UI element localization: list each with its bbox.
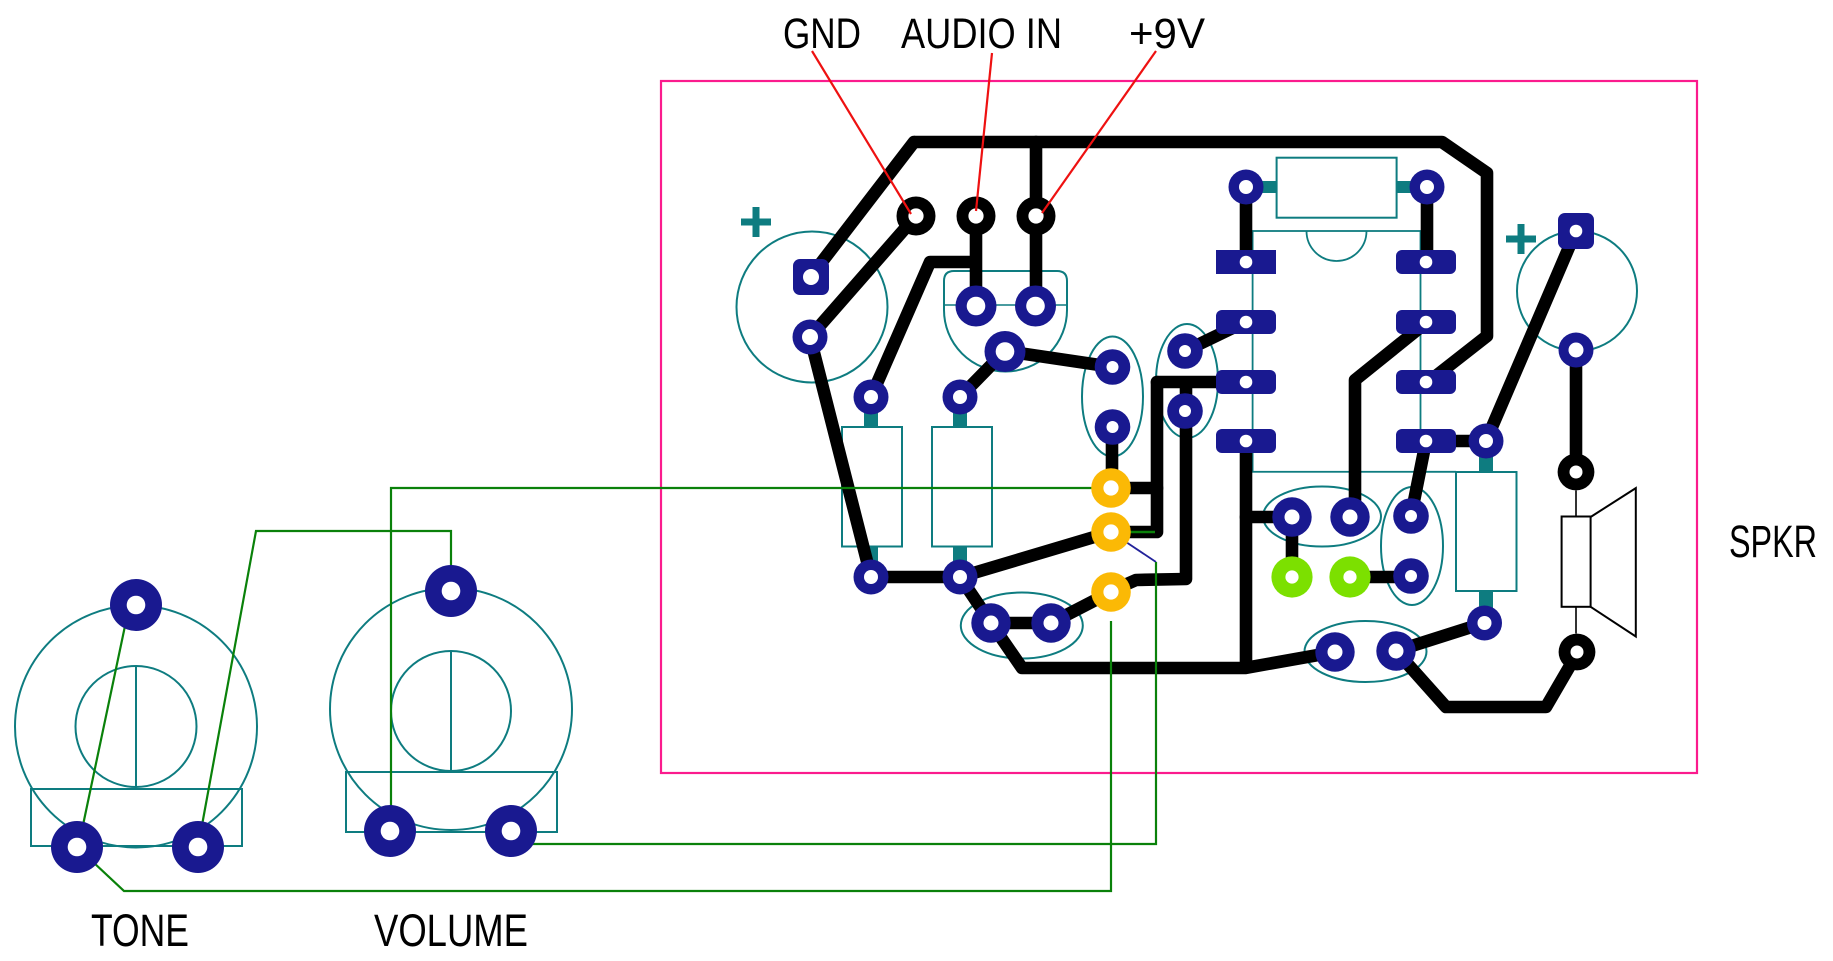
- wire pad X1 to riser: [1111, 482, 1157, 495]
- svg-text:AUDIO IN: AUDIO IN: [901, 10, 1062, 58]
- wire C1 negative to R1 bottom: [810, 337, 871, 577]
- wire R4 left to IC pin1: [1240, 187, 1253, 262]
- wire R1 bottom to R2 bottom: [871, 571, 960, 584]
- svg-text:VOLUME: VOLUME: [374, 905, 528, 956]
- resistor R1 outline: [842, 397, 902, 577]
- IC U1 pin1 pad: [1216, 250, 1276, 274]
- svg-text:SPKR: SPKR: [1729, 516, 1817, 567]
- pad Q4 bottom: [1393, 558, 1429, 594]
- pad R1 top: [854, 380, 889, 415]
- pad X1 orange: [1091, 468, 1131, 508]
- resistor R2 outline: [932, 397, 992, 577]
- pad AUDIO IN ring: [957, 197, 996, 236]
- capacitor C4 outline: [961, 593, 1083, 659]
- label +9V: [1129, 10, 1205, 58]
- wire LED right to Q4 bottom: [1350, 571, 1411, 584]
- wire riser to IC pin6: [1111, 382, 1157, 532]
- wire green VOLUME right riser: [511, 562, 1156, 844]
- pad Q1 pin2: [1015, 286, 1056, 327]
- pad R2 bottom: [943, 560, 978, 595]
- pad C4 left: [971, 603, 1010, 642]
- pad GND ring: [897, 197, 936, 236]
- wire C4 left to C4 right: [991, 617, 1051, 630]
- pad C2 positive: [1558, 213, 1594, 249]
- pad C3 right: [1330, 497, 1369, 536]
- pad R2 top: [943, 380, 978, 415]
- wire GND pad to C1 negative: [810, 216, 916, 337]
- wire green TONE wiper jumper: [75, 607, 129, 863]
- wire audio branch to R1 top: [871, 262, 973, 397]
- resistor R4 outline: [1246, 158, 1427, 218]
- pad C4 right: [1031, 603, 1070, 642]
- capacitor C1 outline: [737, 232, 888, 383]
- pad LED green left: [1271, 556, 1312, 597]
- pad Q3 top: [1167, 333, 1203, 369]
- label GND: [783, 10, 861, 58]
- pad X3 orange: [1091, 572, 1131, 612]
- wire IC pin8 to Q4 top: [1411, 441, 1426, 516]
- IC U1 pin5 pad: [1396, 429, 1456, 453]
- wire green pad X2 stub: [1111, 531, 1155, 534]
- pad R4 left: [1229, 170, 1264, 205]
- pad C5 right: [1376, 631, 1415, 670]
- svg-text:TONE: TONE: [91, 905, 189, 956]
- pad C3 left: [1272, 497, 1311, 536]
- wire bottom vertical to C3 left: [1246, 511, 1291, 524]
- wire R4 right to IC pin1R: [1421, 187, 1434, 262]
- wire Q2 bottom to pad X1: [1106, 427, 1119, 488]
- wire C2 positive to R3 top: [1486, 231, 1576, 441]
- pad R3 bottom: [1467, 606, 1502, 641]
- svg-text:GND: GND: [783, 10, 861, 58]
- wire C5 right to SPKR bottom: [1396, 651, 1578, 707]
- pad R3 top: [1469, 424, 1504, 459]
- potentiometer VOLUME outline: [330, 588, 572, 832]
- pad C5 left: [1315, 632, 1354, 671]
- capacitor C3 outline: [1263, 487, 1381, 547]
- leader line AUDIO IN: [976, 53, 992, 211]
- wire R2 bottom to C4 left: [960, 577, 991, 623]
- capacitor C5 outline: [1305, 621, 1427, 682]
- pad C2 negative: [1559, 333, 1594, 368]
- wire C4 right to pad X3: [1051, 592, 1111, 623]
- wire IC pin8 to R3 top: [1426, 435, 1486, 448]
- potentiometer TONE outline: [15, 606, 257, 848]
- wire C3 left to LED left: [1286, 517, 1299, 577]
- pad Q2 top: [1095, 349, 1131, 385]
- pad VOLUME left: [364, 805, 416, 857]
- IC U1 pin2 pad: [1216, 310, 1276, 334]
- transistor Q4 outline: [1381, 487, 1443, 605]
- wire ground bottom trace: [991, 623, 1335, 668]
- wire R2 top to Q1 center: [960, 351, 1005, 397]
- IC U1 pin6 pad: [1396, 370, 1456, 394]
- capacitor C2 plus mark: [1506, 224, 1536, 254]
- speaker SPKR symbol: [1562, 488, 1636, 636]
- pad SPKR bottom ring: [1559, 634, 1596, 671]
- pad Q4 top: [1393, 498, 1429, 534]
- transistor Q1 outline: [944, 271, 1067, 372]
- wire C2 negative to SPKR top: [1570, 350, 1583, 472]
- wire +9V top trace: [914, 142, 1487, 383]
- wire IC pin5 to bottom trace: [1240, 441, 1253, 668]
- wire green VOLUME left to pad X1: [391, 488, 1111, 831]
- wire green TONE right to VOLUME top: [198, 531, 451, 847]
- transistor Q3 outline: [1156, 324, 1218, 438]
- wire top corner to C1 positive: [811, 142, 914, 276]
- pad Q3 bottom: [1167, 393, 1203, 429]
- label TONE: [91, 905, 189, 956]
- wire green TONE left to pad X3: [77, 621, 1111, 891]
- wire AUDIO IN pad to Q1 left: [970, 216, 983, 306]
- label VOLUME: [374, 905, 528, 956]
- pad C1 positive: [793, 259, 829, 295]
- pad SPKR top ring: [1558, 454, 1595, 491]
- pad TONE left: [51, 821, 103, 873]
- capacitor C2 outline: [1517, 231, 1637, 351]
- IC U1 pin8 pad: [1396, 250, 1456, 274]
- pad R1 bottom: [854, 560, 889, 595]
- label SPKR: [1729, 516, 1817, 567]
- pad LED green right: [1329, 556, 1370, 597]
- leader line GND: [812, 51, 911, 214]
- wire IC pin6 horizontal: [1157, 376, 1245, 389]
- pad Q1 pin3: [985, 331, 1026, 372]
- pad VOLUME right: [485, 805, 537, 857]
- IC U1 pin7 pad: [1396, 310, 1456, 334]
- wire Q1 center to Q2 top: [1005, 351, 1113, 367]
- transistor Q2 outline: [1082, 337, 1143, 457]
- copper traces: [810, 142, 1578, 707]
- pad Q2 bottom: [1095, 409, 1131, 445]
- wire IC pin7 to C3 right: [1350, 322, 1427, 516]
- wire IC pin6 to pad X3: [1111, 384, 1186, 591]
- pad C1 negative: [793, 320, 828, 355]
- board outline (pink PCB rectangle): [661, 81, 1697, 773]
- wire R3 bottom to C5 right: [1396, 623, 1484, 651]
- pad X2 orange: [1091, 512, 1131, 552]
- wire +9V pad to Q1 right: [1030, 142, 1043, 306]
- ratsnest to pad X2: [1111, 532, 1156, 562]
- wire R2 bottom to pad X2: [960, 532, 1111, 577]
- svg-text:+9V: +9V: [1129, 10, 1205, 58]
- pad TONE wiper: [110, 579, 162, 631]
- IC U1 pin3 pad: [1216, 370, 1276, 394]
- leader line +9V: [1042, 51, 1156, 213]
- wire IC pin2 to Q3 top: [1185, 322, 1245, 351]
- label AUDIO IN: [901, 10, 1062, 58]
- pad Q1 pin1: [956, 286, 997, 327]
- capacitor C1 plus mark: [741, 207, 771, 237]
- IC U1 pin4 pad: [1216, 429, 1276, 453]
- pad R4 right: [1410, 170, 1445, 205]
- pad TONE right: [172, 821, 224, 873]
- pad VOLUME wiper: [425, 565, 477, 617]
- resistor R3 outline: [1456, 441, 1517, 623]
- pad +9V ring: [1017, 197, 1056, 236]
- IC U1 outline: [1253, 231, 1456, 472]
